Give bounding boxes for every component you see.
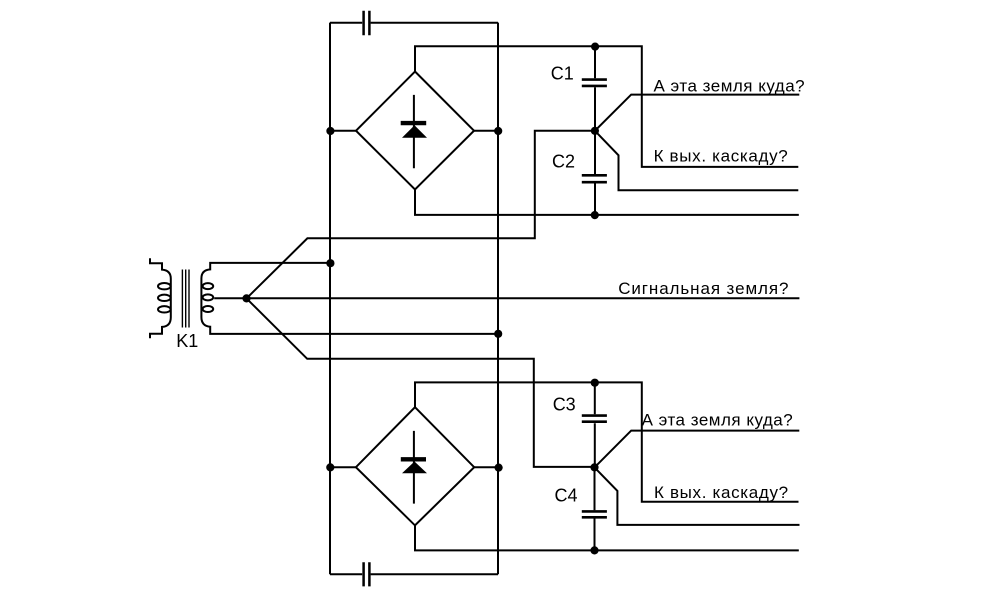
svg-text:C1: C1	[551, 64, 574, 84]
svg-text:К вых. каскаду?: К вых. каскаду?	[654, 483, 789, 502]
svg-text:К вых. каскаду?: К вых. каскаду?	[654, 147, 789, 166]
svg-text:C3: C3	[553, 394, 576, 414]
svg-text:А эта земля куда?: А эта земля куда?	[642, 411, 794, 430]
svg-text:C2: C2	[552, 151, 575, 171]
svg-text:Сигнальная земля?: Сигнальная земля?	[618, 279, 789, 298]
svg-text:K1: K1	[176, 331, 198, 351]
svg-text:А эта земля куда?: А эта земля куда?	[654, 76, 806, 95]
svg-text:C4: C4	[555, 486, 578, 506]
